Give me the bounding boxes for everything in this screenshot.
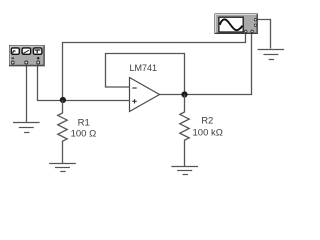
wire: scope ground terminal right then down to ground (257, 20, 271, 49)
ground below R2 (171, 167, 198, 175)
node B: junction dot at op-amp output (181, 91, 187, 97)
terminal pins (11, 61, 14, 64)
wire: plus node up and across top to scope channel A (63, 33, 246, 100)
wire: function generator COM terminal down to ground (26, 64, 28, 123)
window 1 (display button) (11, 48, 19, 54)
op-amp U1 LM741 (130, 63, 160, 112)
resistor R2 (180, 95, 223, 167)
right edge terminals (254, 19, 256, 21)
ground below function generator (13, 123, 40, 133)
sine wave on screen (220, 19, 243, 30)
inverting input mark (132, 87, 136, 89)
ground at oscilloscope (258, 50, 285, 60)
ground below R1 (49, 164, 76, 172)
node A: junction dot at op-amp + input (60, 97, 66, 103)
svg-text:LM741: LM741 (130, 63, 158, 73)
non-inverting input mark (132, 100, 136, 102)
resistor R1 (58, 100, 96, 164)
window 3 (square button) (33, 48, 42, 54)
wire: function generator + output down then right to plus node (38, 64, 130, 101)
minus terminal label (12, 57, 15, 59)
function generator XFG1 (10, 46, 45, 66)
bottom terminals (245, 30, 247, 32)
window 2 (meter button) (22, 48, 31, 54)
svg-text:R2: R2 (201, 115, 213, 126)
oscilloscope XSC1 (215, 14, 257, 34)
plus terminal label (37, 57, 40, 59)
svg-text:100 Ω: 100 Ω (71, 129, 97, 140)
wire: op-amp output right then up to scope channel B (160, 33, 252, 95)
wire: feedback loop from inverting input up over to output node (106, 54, 185, 95)
svg-text:R1: R1 (78, 117, 90, 128)
svg-text:100 kΩ: 100 kΩ (193, 127, 223, 138)
